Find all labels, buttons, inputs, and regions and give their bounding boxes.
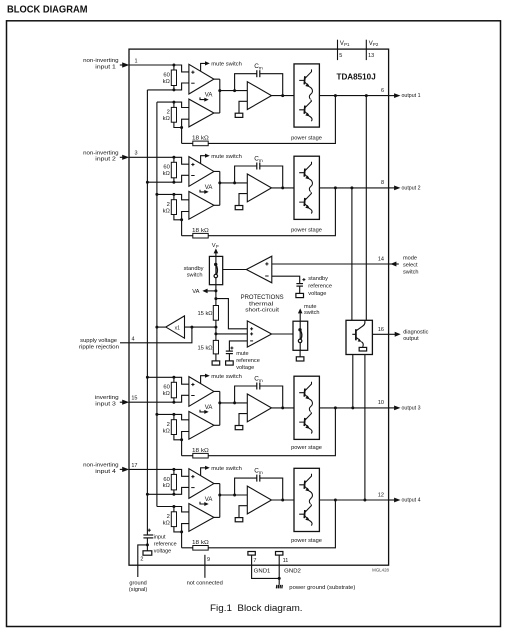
svg-text:1: 1 xyxy=(134,58,137,64)
svg-text:18 kΩ: 18 kΩ xyxy=(192,136,209,142)
mute switch box xyxy=(293,321,308,350)
svg-text:diagnostic: diagnostic xyxy=(403,330,428,336)
standby switch box xyxy=(209,256,222,284)
svg-text:mute switch: mute switch xyxy=(211,374,242,380)
svg-text:P1: P1 xyxy=(344,42,350,47)
svg-text:18 kΩ: 18 kΩ xyxy=(192,448,209,454)
op-amp VA stage ch3 xyxy=(189,411,214,439)
svg-text:6: 6 xyxy=(381,88,384,94)
wire VA inverting input ch4 xyxy=(182,524,189,548)
pin 11 GND2 bond box xyxy=(276,552,283,556)
wire 18k to output ch3 xyxy=(208,408,335,456)
svg-text:15 kΩ: 15 kΩ xyxy=(198,345,213,351)
resistor 60k ch3 xyxy=(173,377,175,382)
capacitor Cm ch2 xyxy=(235,166,257,183)
svg-text:kΩ: kΩ xyxy=(163,208,171,214)
pin 13 VP2 xyxy=(365,40,367,60)
svg-text:mute switch: mute switch xyxy=(211,466,242,472)
svg-text:kΩ: kΩ xyxy=(163,116,171,122)
node diagnostic tap ch2 xyxy=(350,186,353,189)
wire reference line ch2 xyxy=(147,175,189,182)
mute switch arrow ch1 xyxy=(201,63,206,71)
svg-text:short-circuit: short-circuit xyxy=(245,307,279,313)
node 2k bottom join ch3 xyxy=(180,438,183,441)
wire input pin 17 line xyxy=(129,469,189,476)
pin 14 mode select switch xyxy=(389,263,399,265)
node ch4 feedback junction xyxy=(172,493,175,496)
svg-text:switch: switch xyxy=(403,269,419,275)
mute switch arrow ch2 xyxy=(201,156,206,164)
node Cm output join ch3 xyxy=(281,406,284,409)
svg-text:7: 7 xyxy=(253,558,256,564)
node 2k bottom join ch4 xyxy=(180,530,183,533)
svg-text:switch: switch xyxy=(304,310,320,316)
wire second stage ground ref ch3 xyxy=(239,414,247,426)
wire reference line ch4 xyxy=(147,487,189,494)
svg-text:standby: standby xyxy=(184,266,204,272)
wire 18k to output ch2 xyxy=(208,188,335,236)
node Cm output join ch4 xyxy=(281,499,284,502)
wire interstage ch2 xyxy=(214,170,220,172)
resistor 60k ch2 xyxy=(173,157,175,162)
reference box under second stage ch1 xyxy=(235,113,243,117)
wire 18k feedback ch3 xyxy=(182,455,193,457)
pin 11 wire xyxy=(278,555,280,585)
svg-text:kΩ: kΩ xyxy=(163,79,171,85)
wire mute switch to reference box xyxy=(299,350,301,357)
reference box diagnostic xyxy=(359,347,367,351)
svg-text:voltage: voltage xyxy=(154,549,171,555)
power stage 2 transistors xyxy=(299,162,312,214)
op-amp second stage ch2 xyxy=(247,174,271,202)
svg-text:15: 15 xyxy=(131,396,137,402)
wire output 1 line xyxy=(319,95,388,97)
svg-text:VA: VA xyxy=(192,289,199,295)
node 2k top ch2 xyxy=(172,193,175,196)
capacitor Cm ch3 xyxy=(235,386,257,403)
wire mute reference input xyxy=(229,341,247,351)
diagnostic block box xyxy=(346,320,372,354)
capacitor Cm ch1 xyxy=(235,74,257,91)
wire diagnostic tap to output 3 xyxy=(352,355,354,408)
wire input pin 3 line xyxy=(129,157,189,164)
resistor 15k upper xyxy=(213,306,218,321)
svg-text:Fig.1 Block diagram.: Fig.1 Block diagram. xyxy=(210,603,303,613)
wire to second stage ch4 xyxy=(220,494,248,496)
pin 3 input arrow ch2 xyxy=(120,156,123,158)
svg-text:ripple rejection: ripple rejection xyxy=(79,345,119,351)
wire output 3 line xyxy=(319,407,388,409)
svg-text:kΩ: kΩ xyxy=(163,520,171,526)
node 2k top ch4 xyxy=(172,505,175,508)
svg-text:2: 2 xyxy=(167,422,170,428)
svg-text:m: m xyxy=(259,66,263,71)
node Cm tap ch4 xyxy=(233,494,236,497)
reference box standby xyxy=(296,293,304,297)
wire 2k top line ch4 xyxy=(157,507,189,512)
VA output arrow xyxy=(207,290,216,292)
svg-text:PROTECTIONS: PROTECTIONS xyxy=(241,295,284,301)
svg-text:8: 8 xyxy=(381,180,384,186)
wire VA to mute comparator xyxy=(216,299,247,329)
node diagnostic tap ch4 xyxy=(363,499,366,502)
svg-text:input 3: input 3 xyxy=(95,402,116,408)
svg-text:inverting: inverting xyxy=(95,395,119,401)
svg-text:2: 2 xyxy=(167,202,170,208)
node feedback to output ch1 xyxy=(334,94,337,97)
svg-text:P2: P2 xyxy=(373,42,379,47)
wire second stage ground ref ch1 xyxy=(239,101,247,113)
node power ground xyxy=(278,577,281,580)
svg-text:11: 11 xyxy=(283,558,289,564)
power stage 1 box xyxy=(294,64,319,127)
wire output 2 line xyxy=(319,187,388,189)
svg-text:supply voltage: supply voltage xyxy=(80,338,117,344)
svg-text:mute switch: mute switch xyxy=(211,62,242,68)
wire diagnostic tap from output 1 xyxy=(365,96,367,321)
wire second stage output ch4 xyxy=(272,499,295,501)
node Cm tap ch1 xyxy=(233,89,236,92)
node 2k top ch3 xyxy=(172,413,175,416)
wire diagnostic tap to output 4 xyxy=(364,355,366,501)
wire 18k feedback ch2 xyxy=(182,235,193,237)
node Cm tap ch3 xyxy=(233,401,236,404)
wire reference line ch3 xyxy=(147,377,189,384)
node rail A tap ch4 xyxy=(146,493,149,496)
svg-text:power ground (substrate): power ground (substrate) xyxy=(289,585,355,591)
node divider to mute comparator xyxy=(214,332,217,335)
pin 15 input arrow ch3 xyxy=(120,401,123,403)
wire divider middle xyxy=(215,320,217,340)
node 2k bottom join ch2 xyxy=(180,218,183,221)
svg-text:4: 4 xyxy=(131,337,134,343)
op-amp input stage ch3 xyxy=(189,377,214,407)
wire 18k feedback ch4 xyxy=(182,547,193,549)
svg-text:voltage: voltage xyxy=(236,365,254,371)
svg-text:not connected: not connected xyxy=(187,580,223,586)
node 2k top ch1 xyxy=(172,101,175,104)
VA arrow ch3 xyxy=(200,410,205,412)
node ch2 input junction xyxy=(172,156,175,159)
reference box under second stage ch2 xyxy=(235,206,243,210)
node divider to x1 xyxy=(214,326,217,329)
svg-text:kΩ: kΩ xyxy=(163,428,171,434)
svg-text:reference: reference xyxy=(308,283,332,289)
reference box under second stage ch4 xyxy=(235,518,243,522)
svg-text:output: output xyxy=(403,336,419,342)
svg-text:TDA8510J: TDA8510J xyxy=(337,72,376,82)
pin 17 input arrow ch4 xyxy=(120,468,123,470)
svg-text:mode: mode xyxy=(403,256,417,262)
svg-text:18 kΩ: 18 kΩ xyxy=(192,228,209,234)
op-amp standby comparator xyxy=(246,256,271,283)
VA arrow ch1 xyxy=(200,97,205,99)
mute switch symbol xyxy=(299,321,301,350)
node 2k bottom join ch1 xyxy=(180,126,183,129)
node ch1 input junction xyxy=(172,64,175,67)
svg-text:output 3: output 3 xyxy=(402,405,421,411)
svg-text:standby: standby xyxy=(308,276,328,282)
reference box divider xyxy=(212,361,220,365)
node pin4 join xyxy=(190,326,193,329)
svg-text:power stage: power stage xyxy=(291,538,322,544)
power stage 4 transistors xyxy=(299,474,312,526)
svg-text:mute switch: mute switch xyxy=(211,154,242,160)
pin 10 output 3 xyxy=(389,407,395,409)
svg-text:P: P xyxy=(216,244,219,249)
pin 16 diagnostic output xyxy=(372,333,388,335)
svg-text:output 1: output 1 xyxy=(402,93,421,99)
svg-text:reference: reference xyxy=(154,542,177,548)
svg-text:select: select xyxy=(403,263,418,269)
node feedback to output ch4 xyxy=(334,499,337,502)
power stage 4 box xyxy=(294,468,319,531)
svg-text:input 1: input 1 xyxy=(95,64,116,70)
wire 18k feedback ch1 xyxy=(182,142,193,144)
op-amp mute comparator xyxy=(247,321,271,347)
op-amp VA stage ch4 xyxy=(189,504,214,532)
svg-text:15 kΩ: 15 kΩ xyxy=(198,311,213,317)
svg-text:GND1: GND1 xyxy=(254,569,271,575)
svg-text:13: 13 xyxy=(368,53,374,59)
svg-text:power stage: power stage xyxy=(291,228,322,234)
reference box under second stage ch3 xyxy=(235,426,243,430)
svg-text:60: 60 xyxy=(163,165,169,171)
svg-text:power stage: power stage xyxy=(291,136,322,142)
wire 2k top line ch2 xyxy=(157,194,189,199)
VA arrow ch4 xyxy=(200,502,205,504)
resistor 60k ch4 xyxy=(173,469,175,474)
svg-text:(signal): (signal) xyxy=(129,587,147,593)
node Cm output join ch2 xyxy=(281,186,284,189)
svg-text:VA: VA xyxy=(205,497,213,503)
node ch3 input junction xyxy=(172,376,175,379)
svg-text:input: input xyxy=(154,535,166,541)
reference box mute reference xyxy=(226,361,234,365)
svg-text:non-inverting: non-inverting xyxy=(83,150,119,156)
svg-text:12: 12 xyxy=(378,492,384,498)
wire 18k to output ch4 xyxy=(208,500,335,548)
wire 15k lower to reference box xyxy=(215,354,217,361)
standby switch symbol xyxy=(215,256,217,284)
svg-text:kΩ: kΩ xyxy=(163,391,171,397)
power stage 2 box xyxy=(294,156,319,219)
resistor 18k ch2 xyxy=(193,233,208,238)
svg-text:5: 5 xyxy=(339,53,342,59)
svg-text:3: 3 xyxy=(134,151,137,157)
power stage 3 box xyxy=(294,376,319,439)
pin 6 output 1 xyxy=(389,95,395,97)
svg-text:60: 60 xyxy=(163,385,169,391)
svg-text:kΩ: kΩ xyxy=(163,483,171,489)
wire to second stage ch1 xyxy=(220,90,248,92)
pin 9 not connected xyxy=(204,555,206,578)
svg-text:60: 60 xyxy=(163,72,169,78)
wire divider to x1 input xyxy=(185,326,216,328)
wire second stage ground ref ch2 xyxy=(239,194,247,206)
svg-text:2: 2 xyxy=(167,514,170,520)
svg-text:GND2: GND2 xyxy=(284,569,301,575)
node input reference xyxy=(146,543,149,546)
wire 2k top line ch1 xyxy=(157,102,189,107)
VA arrow ch2 xyxy=(200,190,205,192)
svg-text:non-inverting: non-inverting xyxy=(83,58,119,64)
svg-text:17: 17 xyxy=(131,463,137,469)
wire standby reference input xyxy=(272,276,300,283)
svg-text:m: m xyxy=(259,378,263,383)
node feedback to output ch3 xyxy=(334,406,337,409)
node x1 output on rail xyxy=(155,326,158,329)
wire interstage ch4 xyxy=(214,483,220,485)
IC boundary box TDA8510J xyxy=(129,49,389,565)
wire output 4 line xyxy=(319,499,388,501)
svg-text:output 2: output 2 xyxy=(402,185,421,191)
svg-text:10: 10 xyxy=(378,400,384,406)
svg-text:power stage: power stage xyxy=(291,445,322,451)
wire interstage ch3 xyxy=(214,390,220,392)
input reference cap xyxy=(148,529,151,531)
pin 7 GND1 bond box xyxy=(248,552,255,556)
capacitor Cm ch4 xyxy=(235,478,257,495)
diagnostic transistor xyxy=(352,320,365,340)
wire standby comparator to switch xyxy=(223,269,247,271)
node diagnostic tap ch3 xyxy=(351,406,354,409)
pin 12 output 4 xyxy=(389,499,395,501)
svg-text:2: 2 xyxy=(167,110,170,116)
node rail A tap ch2 xyxy=(146,181,149,184)
node interstage ch3 xyxy=(218,401,221,404)
node ch4 input junction xyxy=(172,468,175,471)
node interstage ch2 xyxy=(218,181,221,184)
node ch2 feedback junction xyxy=(172,181,175,184)
op-amp input stage ch4 xyxy=(189,469,214,499)
wire VA inverting input ch1 xyxy=(182,119,189,143)
wire second stage output ch3 xyxy=(272,407,295,409)
wire VA from standby switch xyxy=(215,285,217,306)
wire VA inverting input ch2 xyxy=(182,212,189,236)
svg-text:VA: VA xyxy=(205,405,213,411)
node VA arrow tee xyxy=(214,289,217,292)
pin 2 ground signal xyxy=(138,545,148,577)
wire reference line ch1 xyxy=(147,83,189,90)
node rail B tap ch2 xyxy=(155,193,158,196)
wire 2k top line ch3 xyxy=(157,414,189,419)
wire second stage output ch2 xyxy=(272,187,295,189)
svg-text:x1: x1 xyxy=(175,325,181,331)
svg-text:BLOCK DIAGRAM: BLOCK DIAGRAM xyxy=(7,5,88,16)
wire second stage output ch1 xyxy=(272,95,295,97)
reference box mute switch xyxy=(296,357,304,361)
node rail A tap ch3 xyxy=(146,376,149,379)
resistor 2k ch1 xyxy=(173,102,175,107)
wire diagnostic tap from output 2 xyxy=(351,188,353,320)
pin 4 supply ripple line xyxy=(129,327,192,343)
capacitor mute reference xyxy=(230,347,233,349)
op-amp input stage ch1 xyxy=(189,64,214,94)
mute switch arrow ch3 xyxy=(201,376,206,384)
wire 18k to output ch1 xyxy=(208,96,335,144)
svg-text:60: 60 xyxy=(163,477,169,483)
svg-text:mute: mute xyxy=(304,304,316,310)
wire interstage ch1 xyxy=(214,78,220,80)
svg-text:mute: mute xyxy=(236,351,248,357)
node interstage ch1 xyxy=(218,89,221,92)
svg-text:reference: reference xyxy=(236,358,260,364)
pin 8 output 2 xyxy=(389,187,395,189)
resistor 60k ch1 xyxy=(173,65,175,70)
wire x1 output to rail xyxy=(157,326,166,328)
mute switch up arrow xyxy=(299,313,301,321)
ground substrate symbol xyxy=(275,585,278,589)
svg-text:9: 9 xyxy=(207,557,210,563)
svg-text:16: 16 xyxy=(378,327,384,333)
svg-text:VA: VA xyxy=(205,93,213,99)
svg-text:switch: switch xyxy=(187,272,203,278)
svg-text:2: 2 xyxy=(140,556,143,562)
wire VA inverting input ch3 xyxy=(182,432,189,456)
node ch1 feedback junction xyxy=(172,88,175,91)
op-amp second stage ch3 xyxy=(247,394,271,422)
op-amp x1 buffer xyxy=(166,316,185,338)
capacitor standby reference xyxy=(302,279,305,281)
op-amp VA stage ch2 xyxy=(189,191,214,219)
svg-text:VA: VA xyxy=(205,185,213,191)
svg-text:ground: ground xyxy=(129,580,146,586)
wire to second stage ch3 xyxy=(220,402,248,404)
node feedback to output ch2 xyxy=(334,186,337,189)
node Cm output join ch1 xyxy=(281,94,284,97)
svg-text:MGL428: MGL428 xyxy=(372,567,389,572)
pin 5 VP1 xyxy=(337,40,339,60)
power stage 1 transistors xyxy=(299,69,312,121)
svg-text:14: 14 xyxy=(378,257,384,263)
op-amp VA stage ch1 xyxy=(189,99,214,127)
wire mode select line xyxy=(272,263,389,265)
wire input pin 1 line xyxy=(129,65,189,72)
wire to second stage ch2 xyxy=(220,182,248,184)
wire input pin 15 line xyxy=(129,395,189,402)
resistor 18k ch3 xyxy=(193,453,208,458)
resistor 2k ch3 xyxy=(173,414,175,419)
node VA to comparator tee xyxy=(214,297,217,300)
op-amp second stage ch1 xyxy=(247,82,271,110)
node diagnostic tap ch1 xyxy=(365,94,368,97)
op-amp second stage ch4 xyxy=(247,486,271,514)
node ch3 feedback junction xyxy=(172,401,175,404)
svg-text:m: m xyxy=(259,470,263,475)
svg-text:voltage: voltage xyxy=(308,291,326,297)
resistor 15k lower xyxy=(213,340,218,354)
wire x1 reference rail xyxy=(156,102,158,506)
wire divider to mute comparator xyxy=(216,333,247,335)
pin 7 wire xyxy=(252,555,280,578)
resistor 18k ch4 xyxy=(193,546,208,551)
Vp arrow xyxy=(214,248,219,253)
resistor 18k ch1 xyxy=(193,141,208,146)
op-amp input stage ch2 xyxy=(189,157,214,187)
svg-text:input 2: input 2 xyxy=(95,157,116,163)
svg-text:kΩ: kΩ xyxy=(163,171,171,177)
resistor 2k ch4 xyxy=(173,507,175,512)
svg-text:m: m xyxy=(259,158,263,163)
pin 1 input arrow ch1 xyxy=(120,64,123,66)
svg-text:input 4: input 4 xyxy=(95,469,116,475)
node interstage ch4 xyxy=(218,494,221,497)
mute switch arrow ch4 xyxy=(201,468,206,476)
node Cm tap ch2 xyxy=(233,181,236,184)
node rail B tap ch3 xyxy=(155,413,158,416)
power stage 3 transistors xyxy=(299,382,312,434)
